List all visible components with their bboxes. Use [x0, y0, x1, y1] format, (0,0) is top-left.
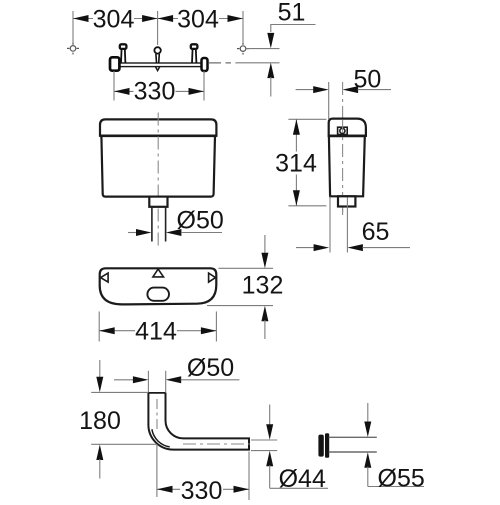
svg-text:50: 50: [353, 66, 381, 94]
lid top triangle mark: [153, 269, 164, 277]
hook level reference line: [246, 48, 280, 50]
dimension 180: arrows: [99, 360, 101, 378]
rail centre peg with hole: [154, 47, 160, 63]
svg-text:Ø55: Ø55: [378, 464, 425, 492]
dimension 51: upper arrow: [267, 33, 274, 49]
dimension 304 left: dimension line: [73, 18, 158, 20]
connector gasket: [318, 435, 323, 457]
label 414: [135, 318, 177, 346]
label 330 top: [134, 78, 176, 106]
label 304 left: [93, 6, 135, 34]
dimension D44: arrows: [269, 405, 271, 427]
dimension 414: extension lines: [98, 312, 100, 342]
label 304 right: [177, 6, 219, 34]
dimension D55: arrows: [367, 403, 369, 423]
dimension 304 right: dimension line: [158, 18, 243, 20]
dimension 330 bottom: extension lines: [156, 444, 158, 497]
mounting rail bar: [119, 63, 202, 67]
dimension 180: extension lines: [91, 391, 148, 393]
front outlet pipe: [152, 207, 166, 242]
dimension 50 side: dimension line left part: [296, 89, 315, 91]
side outlet flange: [338, 196, 355, 206]
dimension 314: extension lines: [288, 118, 326, 120]
cistern side centre line: [342, 82, 344, 215]
flush pipe top cap: [148, 392, 165, 394]
svg-text:414: 414: [135, 318, 177, 346]
dimension 51: lower arrow: [267, 63, 274, 79]
svg-text:314: 314: [275, 149, 317, 177]
dimension 304 right: extension line: [242, 11, 244, 45]
svg-text:Ø50: Ø50: [187, 354, 234, 382]
flush pipe outline: [148, 393, 249, 450]
rail left end cap: [110, 57, 119, 70]
side centre line inside: [342, 120, 344, 213]
lid left triangle mark: [101, 273, 109, 282]
centre extension line: [157, 11, 159, 45]
front outlet flange: [149, 197, 167, 207]
svg-text:304: 304: [177, 6, 219, 34]
dimension 51: leader line: [271, 25, 316, 33]
rail dashed continuation line: [209, 62, 236, 64]
connector pipe lines: [329, 436, 377, 438]
flush pipe centre lines: [156, 399, 158, 429]
cistern front body: [101, 136, 215, 197]
svg-text:180: 180: [79, 407, 121, 435]
svg-text:330: 330: [181, 477, 223, 500]
dimension 414: dimension line: [99, 330, 216, 332]
svg-text:51: 51: [278, 0, 306, 27]
cistern side body: [329, 136, 365, 196]
dimension 304 left: extension line: [72, 11, 74, 45]
dimension 330 top: extension lines: [113, 71, 115, 101]
dimension 304 right: end circle marker: [237, 43, 249, 55]
dimension D50 pipe: extension lines: [147, 371, 149, 392]
dimension 65: dimension line: [296, 247, 315, 249]
dimension 304 left: end circle marker: [67, 43, 79, 55]
lid right triangle mark: [209, 273, 216, 282]
flush pipe bend seam: [152, 429, 170, 447]
label 330 bottom: [180, 477, 223, 505]
lid top view outline: [100, 268, 217, 304]
rail top reference line: [236, 62, 280, 64]
cistern front centre line: [157, 113, 159, 247]
side inlet valve detail: [338, 127, 348, 134]
rail centre notch: [155, 67, 159, 71]
rail right end cap: [202, 58, 208, 71]
cistern front lid: [100, 119, 216, 135]
cistern side lid: [329, 119, 366, 136]
arrows of 304 dimensions: [73, 15, 243, 22]
svg-text:330: 330: [134, 78, 176, 106]
dimension 330 bottom: dimension line: [157, 488, 249, 490]
dimension 132: extension lines: [219, 267, 274, 269]
dimension 314: dimension line: [295, 119, 297, 151]
rail right peg: [191, 44, 198, 63]
cistern side lid joint line: [329, 135, 366, 138]
lid button opening: [147, 288, 169, 301]
cistern front lid joint line: [100, 135, 216, 138]
dimension D50 pipe: dimension line: [114, 379, 134, 381]
svg-text:Ø50: Ø50: [177, 207, 224, 235]
dimension D50 front: [128, 232, 138, 234]
dimension 132: arrows: [264, 235, 266, 254]
svg-text:132: 132: [242, 272, 284, 300]
dimension 50 side: extension lines: [328, 82, 330, 119]
dimension D44: extension lines: [251, 439, 277, 441]
dimension 330 top: dimension line: [114, 90, 204, 92]
svg-text:Ø44: Ø44: [279, 465, 326, 493]
dimension 65: extension lines: [329, 197, 331, 253]
svg-text:304: 304: [93, 6, 135, 34]
svg-text:65: 65: [362, 218, 390, 246]
rail left peg: [120, 44, 127, 63]
